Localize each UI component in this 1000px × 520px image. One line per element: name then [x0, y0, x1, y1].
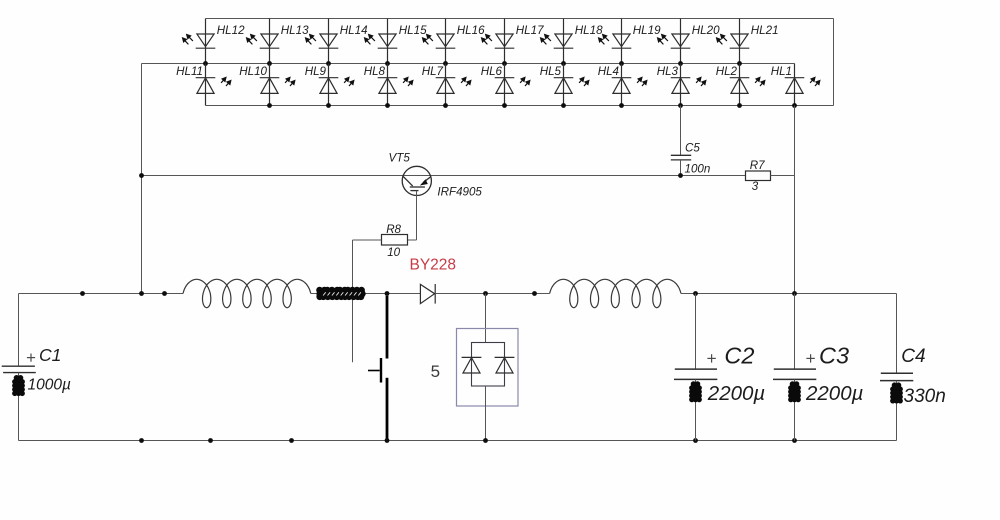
junction dot bottom rail C2-bot	[693, 438, 698, 443]
junction dot C5-control	[678, 173, 683, 178]
junction dot HL10 bottom rail	[267, 103, 272, 108]
junction dot main rail L2-left	[532, 291, 537, 296]
svg-text:HL6: HL6	[481, 65, 503, 78]
wire LED top rail	[206, 18, 834, 20]
wire main rail left	[19, 293, 184, 295]
LED HL11	[196, 64, 231, 106]
junction dot HL8 bottom rail	[385, 103, 390, 108]
LED HL7	[436, 64, 471, 106]
LED HL15	[365, 19, 398, 64]
junction dot HL6 bottom rail	[502, 103, 507, 108]
wire box bottom lead	[485, 386, 487, 441]
wire LED bottom rail	[206, 105, 834, 107]
svg-text:C3: C3	[819, 343, 849, 369]
svg-text:HL9: HL9	[305, 65, 327, 78]
svg-text:HL12: HL12	[217, 24, 245, 37]
wire HL1-R7-C3 feed	[794, 106, 796, 294]
LED HL13	[247, 19, 280, 64]
junction dot HL21 mid rail	[737, 61, 742, 66]
junction dot main rail left-branch	[139, 291, 144, 296]
wire bottom rail	[19, 440, 897, 442]
junction dot bottom rail box-bottom	[483, 438, 488, 443]
junction dot HL18 mid rail	[561, 61, 566, 66]
svg-text:HL4: HL4	[598, 65, 620, 78]
junction dot HL16 mid rail	[443, 61, 448, 66]
junction dot bottom rail c	[289, 438, 294, 443]
LED HL9	[319, 64, 354, 106]
junction dot main rail mosfet-drain	[385, 291, 390, 296]
junction dot HL12 mid rail	[203, 61, 208, 66]
svg-text:HL16: HL16	[457, 24, 485, 37]
wire C5 branch lower	[680, 160, 682, 176]
wire box top lead	[485, 294, 487, 343]
svg-text:HL18: HL18	[575, 24, 603, 37]
LED HL8	[378, 64, 413, 106]
svg-text:HL2: HL2	[716, 65, 738, 78]
svg-text:HL8: HL8	[364, 65, 386, 78]
svg-text:10: 10	[387, 246, 400, 259]
wire C5 branch upper	[680, 106, 682, 156]
LED HL20	[658, 19, 691, 64]
capacitor C1	[18, 294, 20, 367]
svg-text:C5: C5	[685, 141, 700, 154]
svg-text:2200µ: 2200µ	[805, 382, 863, 405]
svg-text:IRF4905: IRF4905	[437, 185, 482, 198]
LED HL19	[599, 19, 632, 64]
svg-text:HL1: HL1	[771, 65, 792, 78]
LED HL1	[785, 64, 820, 106]
svg-text:HL20: HL20	[692, 24, 720, 37]
capacitor C3	[794, 294, 796, 370]
junction dot main rail box-top	[483, 291, 488, 296]
wire LED mid rail	[142, 63, 795, 65]
LED HL18	[541, 19, 574, 64]
LED HL21	[717, 19, 750, 64]
junction dot HL15 mid rail	[385, 61, 390, 66]
LED HL2	[730, 64, 765, 106]
svg-text:100n: 100n	[685, 163, 711, 176]
LED HL10	[260, 64, 295, 106]
svg-text:BY228: BY228	[410, 257, 457, 274]
svg-text:C4: C4	[901, 346, 925, 367]
svg-text:VT5: VT5	[389, 151, 411, 164]
wire R7 to feed	[771, 175, 795, 177]
optobox inner	[472, 343, 505, 387]
optobox outer	[457, 329, 519, 407]
junction dot main rail noise-b	[162, 291, 167, 296]
LED HL17	[482, 19, 515, 64]
junction dot main rail C2-top	[693, 291, 698, 296]
junction dot HL2 bottom rail	[737, 103, 742, 108]
svg-text:HL17: HL17	[516, 24, 544, 37]
svg-text:HL13: HL13	[281, 24, 309, 37]
LED HL6	[495, 64, 530, 106]
junction dot HL4 bottom rail	[619, 103, 624, 108]
diode box-right	[495, 357, 515, 373]
junction dot HL17 mid rail	[502, 61, 507, 66]
junction dot HL3 bottom rail	[678, 103, 683, 108]
svg-text:5: 5	[431, 362, 440, 381]
resistor R8	[382, 235, 408, 246]
svg-text:HL5: HL5	[540, 65, 562, 78]
junction dot control-left	[139, 173, 144, 178]
transistor VT5	[402, 166, 431, 195]
svg-text:HL19: HL19	[633, 24, 661, 37]
wire R8 right lead	[408, 239, 417, 241]
svg-text:2200µ: 2200µ	[707, 382, 765, 405]
svg-text:HL3: HL3	[657, 65, 679, 78]
LED HL16	[423, 19, 456, 64]
junction dot HL5 bottom rail	[561, 103, 566, 108]
junction dot HL14 mid rail	[326, 61, 331, 66]
svg-text:HL10: HL10	[239, 65, 267, 78]
LED HL14	[306, 19, 339, 64]
svg-text:HL14: HL14	[340, 24, 368, 37]
svg-text:HL7: HL7	[422, 65, 444, 78]
wire main rail mid	[311, 293, 421, 295]
capacitor C5	[671, 155, 691, 160]
diode box-left	[462, 357, 482, 373]
svg-text:HL11: HL11	[176, 65, 203, 78]
wire R8 left lead	[353, 239, 382, 241]
junction dot HL19 mid rail	[619, 61, 624, 66]
junction dot HL9 bottom rail	[326, 103, 331, 108]
wire LED array right edge	[833, 19, 835, 106]
LED HL4	[612, 64, 647, 106]
junction dot bottom rail mosfet-source	[385, 438, 390, 443]
inductor scribble blob	[316, 287, 366, 300]
svg-text:330n: 330n	[904, 386, 946, 407]
wire left vertical branch	[141, 64, 143, 294]
svg-text:R7: R7	[750, 159, 765, 172]
svg-text:C1: C1	[39, 345, 61, 365]
svg-text:1000µ: 1000µ	[28, 377, 71, 394]
svg-text:C2: C2	[724, 343, 754, 369]
svg-text:R8: R8	[386, 223, 401, 236]
resistor R7	[746, 171, 771, 181]
junction dot HL7 bottom rail	[443, 103, 448, 108]
transistor VT (switch)	[368, 296, 387, 441]
junction dot bottom rail b	[208, 438, 213, 443]
LED HL3	[671, 64, 706, 106]
wire VT5 base lead	[416, 191, 418, 240]
junction dot HL13 mid rail	[267, 61, 272, 66]
wire main rail right	[681, 293, 897, 295]
inductor L2	[550, 279, 681, 307]
svg-text:3: 3	[752, 180, 759, 193]
junction dot bottom rail C3-bot	[792, 438, 797, 443]
LED HL12	[183, 19, 216, 64]
junction dot bottom rail a	[139, 438, 144, 443]
wire gate control line	[142, 175, 746, 177]
inductor L1	[183, 279, 311, 307]
junction dot HL1 bottom rail	[792, 103, 797, 108]
junction dot HL20 mid rail	[678, 61, 683, 66]
svg-text:HL21: HL21	[751, 24, 779, 37]
diode VD BY228	[420, 284, 434, 303]
LED HL5	[554, 64, 589, 106]
junction dot main rail noise-a	[80, 291, 85, 296]
wire main rail diode-L2	[435, 293, 549, 295]
capacitor C2	[695, 294, 697, 370]
junction dot main rail C3-top	[792, 291, 797, 296]
wire R8 down lead	[352, 240, 354, 362]
svg-text:HL15: HL15	[399, 24, 427, 37]
capacitor C4	[896, 294, 898, 374]
